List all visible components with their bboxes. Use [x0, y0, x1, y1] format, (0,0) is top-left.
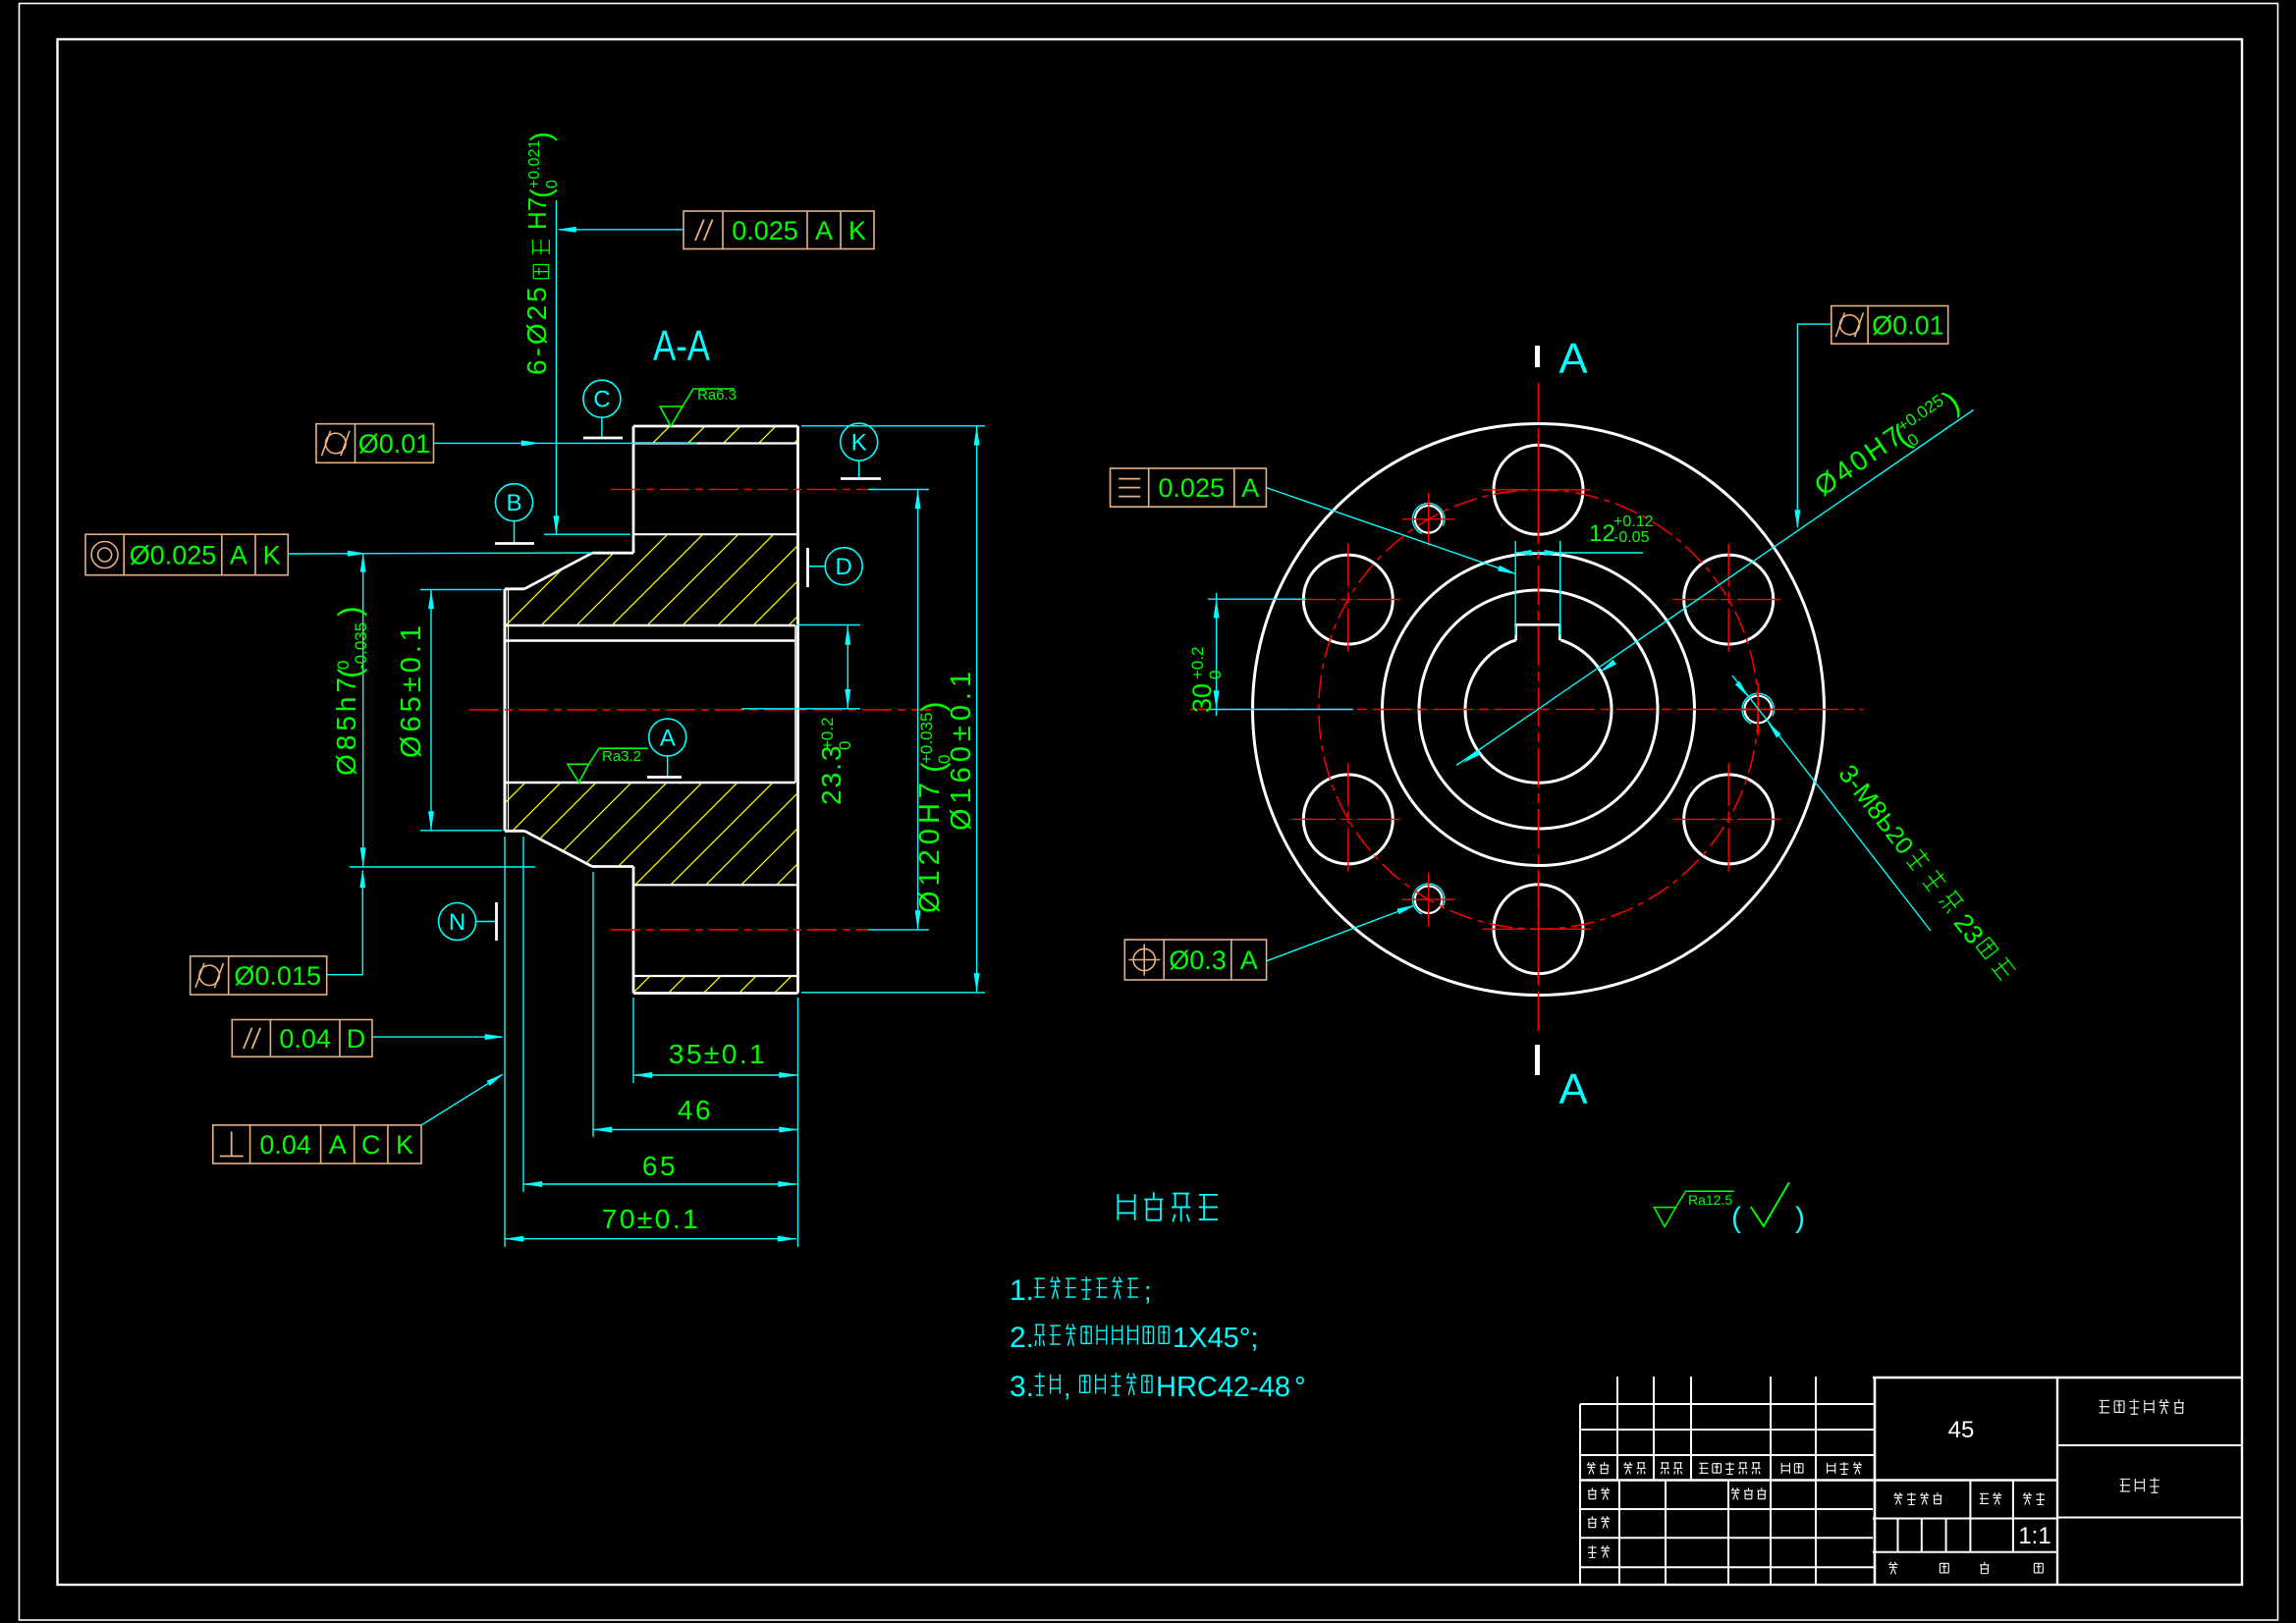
3-M8 leader/dim [1732, 676, 1931, 931]
section: hub left end face [504, 589, 507, 832]
front view bore Ø40 with keyway gap [1465, 640, 1612, 783]
datum D [825, 548, 862, 585]
title block texts [1587, 1462, 1596, 1474]
svg-text:12: 12 [1589, 520, 1615, 547]
svg-text:A: A [230, 541, 247, 570]
svg-text:K: K [848, 216, 866, 245]
svg-text:(: ( [1731, 1202, 1741, 1234]
dim 23.3 [847, 626, 848, 709]
Ø85h7 tol text [331, 606, 370, 776]
svg-text:): ) [525, 132, 558, 141]
svg-text:K: K [263, 541, 281, 570]
section centerline: top bolt hole [611, 489, 868, 491]
svg-text:-0.035: -0.035 [352, 622, 370, 670]
dim 65 [523, 1183, 797, 1185]
svg-text:Ø0.01: Ø0.01 [358, 429, 431, 459]
svg-text:A: A [329, 1130, 347, 1160]
datum K [841, 423, 878, 460]
3 M8 threaded holes [1744, 696, 1772, 724]
front view circle Ø85 [1383, 554, 1695, 866]
leader cyl 0.01 [434, 442, 538, 444]
svg-text:Ø0.025: Ø0.025 [130, 541, 217, 570]
svg-text:70±0.1: 70±0.1 [602, 1204, 700, 1234]
svg-text:+0.035: +0.035 [917, 713, 936, 764]
svg-text:45: 45 [1948, 1417, 1975, 1443]
Ø160 text [946, 667, 977, 831]
section cut mark A top [1535, 346, 1540, 367]
svg-text:0: 0 [1206, 671, 1225, 679]
svg-text:0.04: 0.04 [259, 1130, 311, 1160]
leader position [1267, 905, 1415, 961]
svg-text:0.025: 0.025 [732, 216, 798, 245]
dim Ø65±0.1 [430, 590, 432, 831]
6-Ø25均布H7 text [521, 284, 552, 375]
dim 6-Ø25 leader line [555, 200, 557, 534]
svg-text:1.: 1. [1010, 1274, 1034, 1307]
keyway width dim 12 [1514, 541, 1516, 635]
leader perp [421, 1075, 503, 1126]
datum N [439, 903, 476, 941]
dim 35±0.1 [633, 1074, 798, 1076]
GD&T frame // 0.04 D [232, 1020, 372, 1057]
svg-text:A-A: A-A [653, 322, 711, 370]
svg-text:30: 30 [1187, 683, 1217, 713]
section view hatch: lower web [505, 783, 798, 885]
svg-text:0: 0 [836, 741, 854, 750]
dim 30 (left) [1208, 598, 1306, 600]
svg-text:Ra6.3: Ra6.3 [697, 387, 737, 404]
dim 70±0.1 [505, 1238, 796, 1240]
svg-text:Ø0.3: Ø0.3 [1169, 946, 1227, 975]
svg-text:°: ° [1294, 1372, 1306, 1403]
svg-text:N: N [449, 909, 465, 936]
svg-text:Ra12.5: Ra12.5 [1688, 1192, 1732, 1208]
GD&T frame // 0.025 A K (top) [683, 211, 874, 249]
front view circle Ø65 [1419, 590, 1658, 829]
tech requirements title 技术要求 [1118, 1194, 1134, 1219]
svg-text:K: K [396, 1130, 413, 1160]
leader concentricity [288, 553, 592, 554]
section view hatch: flange top band [633, 426, 798, 444]
leader symmetry [1266, 488, 1515, 574]
GD&T frame ⊥ 0.04 A C K [213, 1125, 421, 1163]
svg-text:B: B [506, 490, 521, 516]
surface finish Ra3.2 [568, 764, 589, 783]
svg-text:3.: 3. [1010, 1371, 1034, 1403]
svg-text:(: ( [332, 668, 367, 678]
bolt circle (red dashed) [1319, 490, 1758, 929]
Ø40H7 text [1809, 383, 1967, 509]
dim 46 [593, 1129, 798, 1131]
svg-text:-0.05: -0.05 [1613, 529, 1650, 546]
svg-text:1X45°;: 1X45°; [1173, 1323, 1258, 1354]
svg-text:H7: H7 [522, 197, 552, 230]
svg-text:D: D [347, 1024, 366, 1054]
svg-text:K: K [851, 430, 867, 457]
Ø120H7 text [914, 701, 954, 913]
section view hatch: flange bottom band [633, 976, 798, 994]
svg-text:Ø0.01: Ø0.01 [1872, 310, 1944, 340]
keyway slot [1514, 623, 1560, 626]
GD&T frame cylindricity Ø0.01 (front) [1831, 306, 1948, 345]
front view outer circle Ø160 [1253, 424, 1825, 996]
bolt hole crosshairs [1483, 489, 1595, 491]
GD&T frame cylindricity Ø0.01 (left) [316, 424, 434, 463]
dim Ø120H7 [917, 490, 919, 930]
svg-text:65: 65 [642, 1151, 678, 1181]
svg-text:Ø85h7: Ø85h7 [331, 674, 361, 776]
23.3 tol text [816, 717, 854, 805]
svg-text:): ) [332, 606, 367, 617]
svg-text:+0.2: +0.2 [1188, 646, 1207, 679]
extension lines (section) [350, 866, 535, 868]
section view hatch: upper web [505, 534, 798, 625]
GD&T frame ◎ Ø0.025 A K [85, 534, 288, 575]
datum C [583, 380, 621, 417]
leader cyl 0.015 [327, 871, 363, 975]
svg-text:0: 0 [544, 180, 561, 189]
3-M8 text [1832, 759, 1920, 859]
svg-text:Ø65±0.1: Ø65±0.1 [396, 622, 427, 758]
svg-text:Ø0.015: Ø0.015 [234, 961, 321, 991]
svg-text:A: A [1558, 1065, 1588, 1113]
GD&T frame cylindricity Ø0.015 [191, 956, 327, 995]
svg-text:C: C [361, 1130, 381, 1160]
svg-text:46: 46 [678, 1095, 713, 1125]
leader // 0.04 D [372, 1036, 502, 1038]
GD&T frame ⌖ Ø0.3 A (front) [1124, 940, 1266, 980]
svg-text:;: ; [1144, 1276, 1152, 1306]
GD&T frame ≡ 0.025 A (front) [1111, 468, 1267, 507]
section: keyway top line [505, 624, 795, 626]
front view main centerlines [1538, 383, 1540, 1036]
svg-text:+0.2: +0.2 [818, 717, 837, 750]
svg-text:1:1: 1:1 [2018, 1523, 2050, 1549]
6 bolt holes Ø25 [1494, 445, 1583, 534]
svg-text:+0.021: +0.021 [526, 140, 543, 189]
svg-text:23.3: 23.3 [816, 744, 847, 806]
dim Ø160±0.1 [976, 426, 978, 992]
svg-text:35±0.1: 35±0.1 [669, 1039, 767, 1069]
svg-text:,: , [1064, 1373, 1071, 1402]
Ra12.5 surface symbol (bottom right) [1654, 1208, 1675, 1227]
datum B [496, 484, 533, 521]
svg-text:A: A [1558, 335, 1588, 383]
Ø40H7 diameter dim line [1456, 410, 1974, 766]
联轴器 [2120, 1479, 2130, 1491]
svg-text:A: A [660, 726, 676, 752]
svg-text:A: A [815, 216, 833, 245]
section: bore Ø40 [505, 639, 795, 641]
section: bolt hole Ø25 bottom [633, 884, 798, 886]
svg-text:Ra3.2: Ra3.2 [602, 748, 641, 765]
section: bore recess chamfer line [794, 625, 796, 783]
leader of // frame [559, 229, 683, 231]
svg-text:+0.12: +0.12 [1613, 514, 1654, 530]
svg-text:Ø120H7: Ø120H7 [914, 778, 946, 913]
svg-text:6-Ø25: 6-Ø25 [521, 284, 552, 375]
svg-text:Ø160±0.1: Ø160±0.1 [946, 667, 977, 831]
section: hub profile bottom [505, 830, 524, 833]
Ø65 text [396, 622, 427, 758]
section: hub profile top [592, 552, 633, 555]
section cut mark A bottom [1535, 1045, 1540, 1075]
svg-text:): ) [1795, 1202, 1805, 1234]
svg-text:(: ( [525, 189, 558, 198]
section outline: flange Ø160 [633, 425, 798, 428]
svg-text:0.04: 0.04 [279, 1024, 331, 1054]
svg-text:2.: 2. [1010, 1322, 1034, 1354]
surface finish Ra6.3 [660, 406, 683, 426]
湖南科技大学 [2100, 1400, 2109, 1413]
section centerline: main axis [469, 709, 931, 711]
svg-text:0.025: 0.025 [1158, 473, 1225, 503]
title block lines [1580, 1403, 1875, 1405]
svg-text:HRC42-48: HRC42-48 [1156, 1372, 1290, 1403]
dim Ø85h7 [362, 554, 364, 867]
svg-text:A: A [1240, 946, 1258, 975]
section: bolt hole Ø25 top [633, 442, 798, 444]
leader cyl front [1797, 324, 1831, 526]
datum A [649, 719, 686, 756]
svg-text:A: A [1241, 473, 1259, 503]
section centerline: bottom bolt hole [611, 929, 868, 931]
svg-text:C: C [593, 387, 610, 413]
svg-text:D: D [836, 554, 852, 580]
